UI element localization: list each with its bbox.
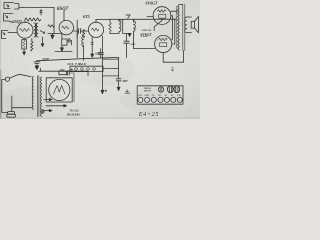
svg-text:.05MF: .05MF — [42, 58, 50, 61]
svg-text:100X: 100X — [60, 70, 65, 72]
svg-text:6SQ7: 6SQ7 — [57, 7, 69, 12]
svg-text:8MF: 8MF — [131, 43, 136, 46]
svg-text:.006MF: .006MF — [141, 36, 149, 38]
svg-text:TO ALL: TO ALL — [70, 109, 80, 112]
svg-text:HEATERS: HEATERS — [66, 114, 80, 117]
svg-text:6T5: 6T5 — [83, 14, 90, 19]
svg-text:6V6GT: 6V6GT — [146, 1, 159, 6]
svg-text:C48: C48 — [171, 67, 174, 72]
svg-text:E4+25: E4+25 — [138, 111, 159, 118]
